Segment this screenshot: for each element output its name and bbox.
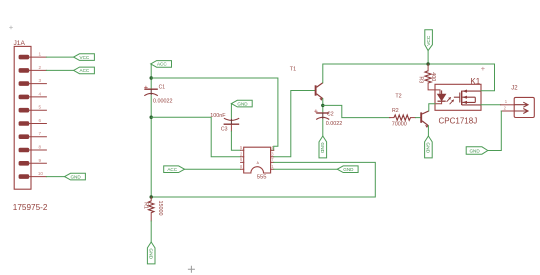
svg-text:1: 1 bbox=[38, 52, 41, 57]
relay LED D1 bbox=[435, 90, 446, 103]
flag ACC mid bbox=[164, 166, 185, 173]
wire T1 emitter down bbox=[322, 99, 324, 113]
wire pin1 to VCC bbox=[46, 56, 73, 58]
IC 555 timer body bbox=[244, 147, 271, 173]
svg-text:T1: T1 bbox=[290, 67, 296, 73]
flag GND below T2 bbox=[425, 136, 433, 158]
wire GND to C3 bbox=[230, 104, 232, 118]
plus mark top left bbox=[9, 26, 13, 30]
resistor R1 bbox=[149, 197, 154, 221]
svg-text:3: 3 bbox=[271, 152, 274, 157]
wire C2 to GND bbox=[322, 120, 324, 137]
flag ACC top bbox=[151, 61, 172, 68]
wire T2 emitter to GND bbox=[427, 126, 429, 136]
svg-text:0.0022: 0.0022 bbox=[326, 121, 343, 127]
connector J1A bbox=[14, 46, 31, 189]
svg-text:T2: T2 bbox=[395, 93, 401, 99]
svg-text:5: 5 bbox=[240, 145, 243, 150]
svg-text:0.00022: 0.00022 bbox=[153, 98, 173, 104]
svg-text:2: 2 bbox=[38, 65, 41, 70]
svg-text:2: 2 bbox=[240, 152, 243, 157]
junction dot T1 emitter bbox=[321, 104, 324, 107]
wire relay pin1 to J2 bbox=[481, 104, 514, 106]
relay MOSFET arrows bbox=[462, 90, 467, 105]
svg-text:5: 5 bbox=[38, 105, 41, 110]
plus mark near relay bbox=[481, 67, 485, 71]
555 pin stubs right bbox=[271, 150, 274, 169]
wire VCC down to rail bbox=[427, 51, 429, 64]
svg-text:6: 6 bbox=[38, 118, 41, 123]
wire R1 to GND bbox=[150, 221, 152, 242]
555 pin stubs left bbox=[241, 150, 244, 169]
svg-text:C2: C2 bbox=[327, 111, 334, 117]
flag GND pin10 bbox=[65, 173, 86, 180]
svg-text:R1: R1 bbox=[143, 202, 149, 209]
flag GND below C2 bbox=[319, 136, 327, 158]
flag VCC pin1 bbox=[74, 54, 95, 61]
J1A pin 5 bbox=[29, 105, 46, 111]
flag GND below R1 bbox=[147, 242, 155, 264]
J1A pin 4 bbox=[29, 91, 46, 97]
svg-text:100nF: 100nF bbox=[210, 113, 226, 119]
capacitor C1 bbox=[144, 86, 158, 96]
svg-text:GND: GND bbox=[147, 248, 153, 259]
svg-text:GND: GND bbox=[237, 101, 248, 106]
wire rail down to relay drain bbox=[481, 64, 495, 91]
svg-text:GND: GND bbox=[343, 167, 354, 172]
svg-text:9: 9 bbox=[38, 158, 41, 163]
svg-text:7: 7 bbox=[271, 157, 274, 162]
junction dot node ACC/555pin5 bbox=[150, 76, 153, 79]
svg-text:2: 2 bbox=[504, 105, 507, 110]
svg-text:VCC: VCC bbox=[426, 35, 432, 46]
connector J2 bbox=[514, 97, 534, 117]
wire loop to 555 pin row2 bbox=[151, 117, 240, 157]
wire C1 bottom down bbox=[150, 96, 152, 197]
relay MOSFET bbox=[454, 91, 481, 105]
wire node to 555 pin row1 (top right path) bbox=[151, 78, 278, 150]
svg-text:R3: R3 bbox=[417, 77, 423, 84]
capacitor C2 bbox=[314, 110, 329, 120]
555 pin numbers left bbox=[240, 145, 243, 169]
wire T1 collector to rail bbox=[323, 64, 495, 83]
svg-text:GND: GND bbox=[469, 149, 480, 154]
svg-text:70000: 70000 bbox=[392, 121, 407, 127]
wire C3 to 555 pin row1 left bbox=[231, 131, 240, 150]
junction dot VCC rail bbox=[426, 62, 429, 65]
svg-text:ACC: ACC bbox=[167, 167, 177, 172]
svg-text:7: 7 bbox=[38, 131, 41, 136]
J1A pin 9 bbox=[29, 158, 46, 164]
svg-text:4: 4 bbox=[38, 91, 41, 96]
junction dot RC node bbox=[150, 195, 153, 198]
svg-text:3: 3 bbox=[38, 78, 41, 83]
svg-text:1: 1 bbox=[505, 99, 508, 104]
wire emitter node to R2 bbox=[323, 105, 390, 117]
relay opto arrows bbox=[447, 97, 454, 104]
svg-text:400: 400 bbox=[430, 72, 436, 81]
svg-text:10: 10 bbox=[38, 171, 44, 176]
555 pin numbers right bbox=[271, 145, 274, 169]
J1A pin 10 bbox=[29, 171, 46, 177]
svg-text:R2: R2 bbox=[392, 108, 399, 114]
svg-text:CPC1718J: CPC1718J bbox=[439, 116, 478, 125]
svg-text:6: 6 bbox=[240, 157, 243, 162]
flag GND right of 555 bbox=[337, 166, 358, 173]
svg-text:A: A bbox=[257, 161, 260, 165]
junction dot C1/loop node bbox=[150, 116, 153, 119]
wire LED cathode exit to T2 collector bbox=[429, 104, 435, 111]
relay K1 body bbox=[435, 84, 481, 110]
transistor Q2 T2 bbox=[421, 111, 429, 128]
svg-text:VCC: VCC bbox=[80, 55, 90, 60]
wire 555 row3 to RC node bbox=[151, 162, 375, 197]
svg-text:GND: GND bbox=[319, 142, 325, 153]
J1A pin 7 bbox=[29, 131, 46, 137]
wire J2 pin2 to GND bbox=[488, 111, 502, 151]
capacitor C3 bbox=[224, 118, 240, 131]
svg-text:C3: C3 bbox=[221, 127, 228, 133]
resistor R2 bbox=[390, 115, 416, 120]
J1A pin 8 bbox=[29, 145, 46, 151]
plus mark bottom bbox=[188, 266, 195, 273]
svg-text:J2: J2 bbox=[511, 85, 518, 91]
wire 555 row4 to GND flag bbox=[274, 168, 338, 170]
svg-text:15000: 15000 bbox=[157, 201, 163, 216]
J1A pin 3 bbox=[29, 78, 46, 84]
transistor Q1 T1 bbox=[316, 83, 323, 101]
resistor R3 bbox=[425, 64, 440, 93]
svg-text:GND: GND bbox=[425, 142, 431, 153]
svg-text:555: 555 bbox=[257, 175, 267, 181]
svg-text:J1A: J1A bbox=[14, 40, 26, 47]
J1A pin 6 bbox=[29, 118, 46, 124]
svg-text:C1: C1 bbox=[159, 84, 166, 90]
wire R2 to T2 base bbox=[416, 117, 421, 119]
wire 555 out to T1 base bbox=[274, 91, 315, 157]
svg-text:ACC: ACC bbox=[157, 62, 167, 67]
svg-text:GND: GND bbox=[70, 174, 81, 179]
svg-text:K1: K1 bbox=[470, 77, 480, 86]
flag GND right bbox=[466, 147, 488, 154]
wire ACC flag down to C1 bbox=[150, 64, 152, 89]
J1A pin 1 bbox=[29, 52, 46, 58]
wire ACC mid to 555 pin row4 left bbox=[185, 168, 241, 170]
flag ACC pin2 bbox=[74, 67, 95, 74]
svg-text:8: 8 bbox=[240, 164, 243, 169]
J2 pin2 stub bbox=[501, 110, 514, 112]
svg-text:8: 8 bbox=[38, 145, 41, 150]
wire pin10 to GND bbox=[46, 176, 64, 178]
svg-text:1: 1 bbox=[271, 164, 274, 169]
wire pin2 to ACC bbox=[46, 69, 73, 71]
J1A pin 2 bbox=[29, 65, 46, 71]
flag VCC top bbox=[425, 30, 433, 51]
svg-text:175975-2: 175975-2 bbox=[13, 203, 48, 212]
svg-text:ACC: ACC bbox=[80, 68, 90, 73]
flag GND above C3 bbox=[231, 100, 252, 107]
